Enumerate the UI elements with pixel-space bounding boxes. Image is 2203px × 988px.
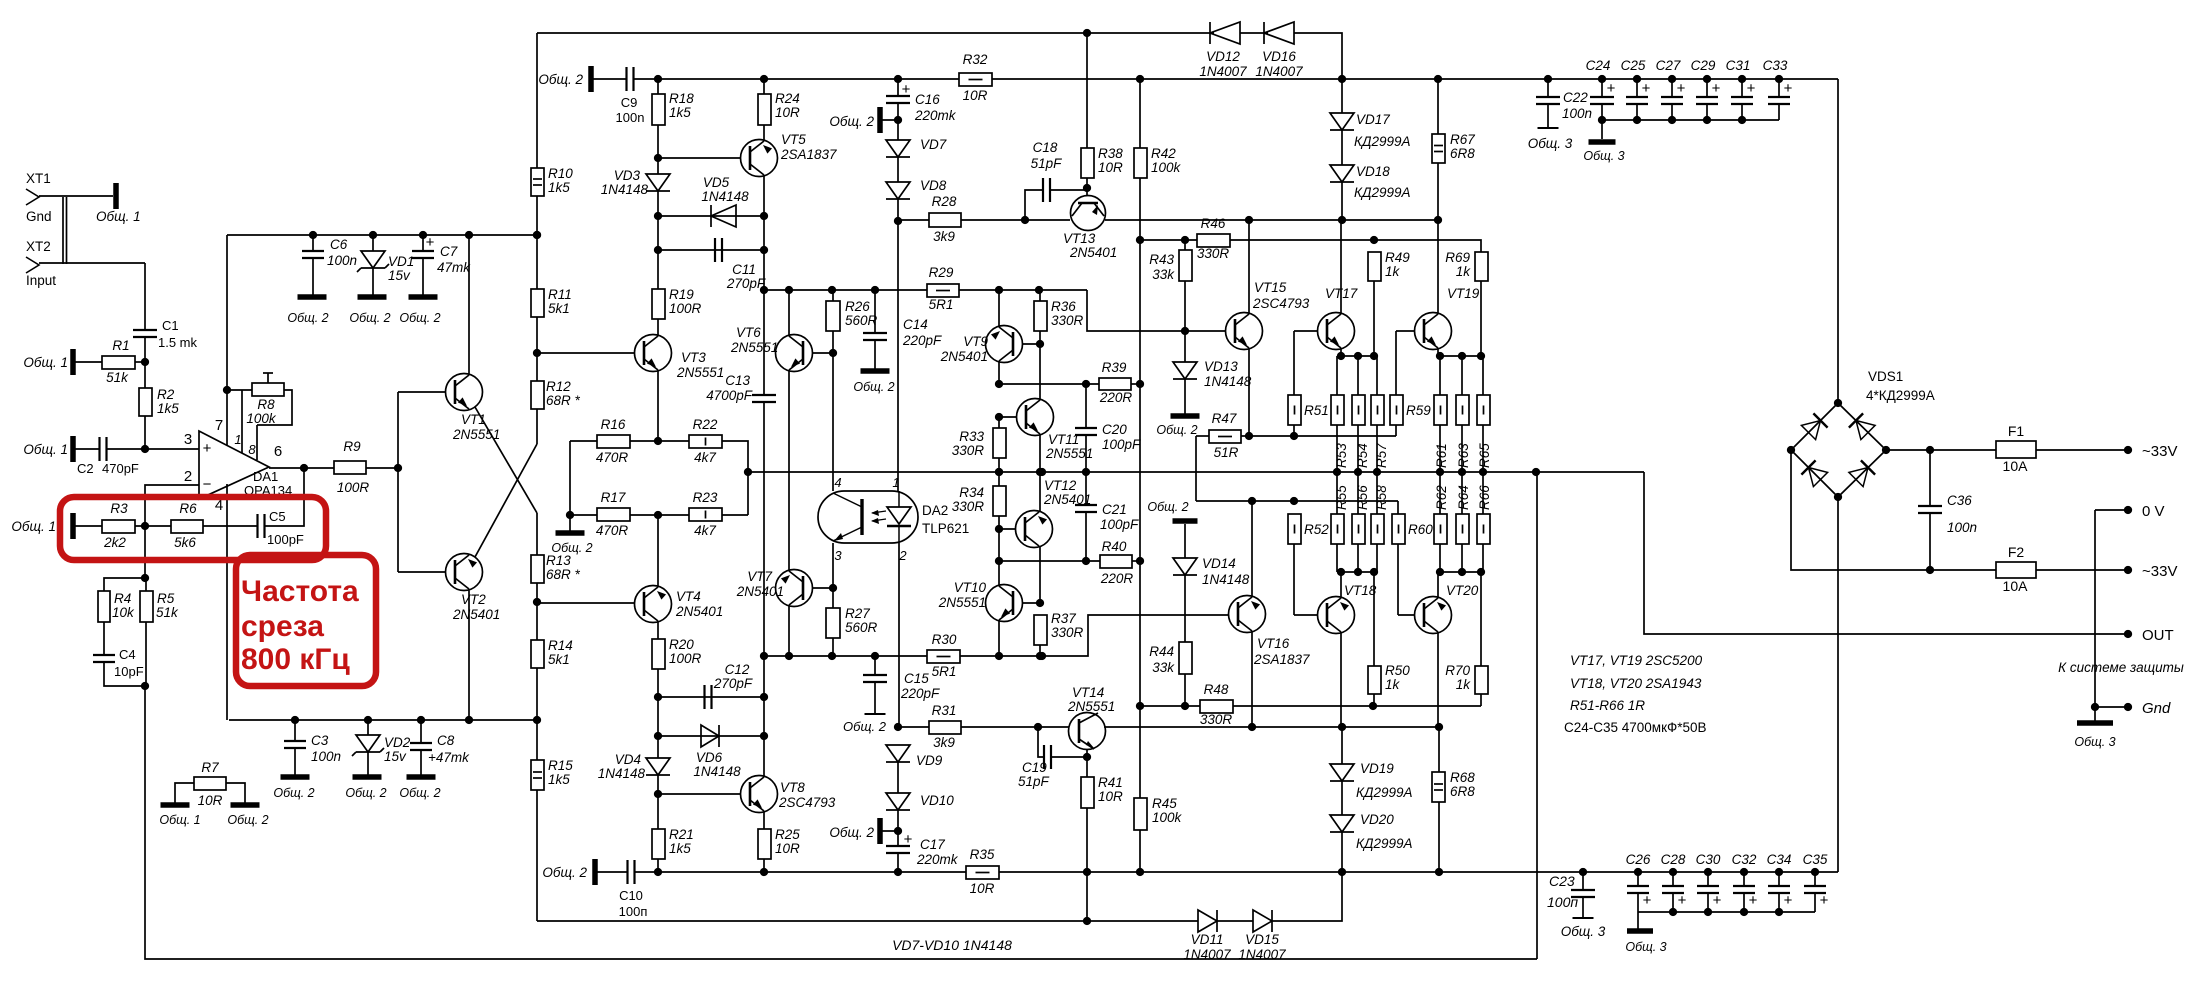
wire — [1438, 355, 1481, 357]
svg-text:Общ. 3: Общ. 3 — [1625, 940, 1666, 954]
svg-text:VD7: VD7 — [920, 137, 947, 152]
svg-text:Gnd: Gnd — [26, 209, 52, 224]
wire — [897, 157, 899, 182]
wire — [1480, 694, 1482, 706]
wire — [175, 783, 194, 803]
svg-text:Общ. 2: Общ. 2 — [829, 825, 874, 840]
wire — [898, 543, 900, 727]
svg-text:C22: C22 — [1563, 90, 1588, 105]
capacitor C18 — [1031, 140, 1063, 202]
junction — [654, 154, 662, 162]
junction — [1136, 75, 1144, 83]
junction — [141, 445, 149, 453]
svg-text:VD16: VD16 — [1262, 49, 1296, 64]
svg-text:TLP621: TLP621 — [922, 521, 969, 536]
svg-text:Общ. 2: Общ. 2 — [843, 719, 887, 734]
wire — [1140, 705, 1200, 707]
wire — [897, 810, 899, 846]
wire — [1357, 472, 1359, 514]
svg-text:220R: 220R — [1099, 390, 1133, 405]
svg-text:100R: 100R — [669, 301, 702, 316]
resistor R40 — [1100, 539, 1134, 586]
wire — [898, 219, 929, 221]
capacitor C21 plates — [1075, 502, 1139, 532]
svg-text:R42: R42 — [1151, 146, 1176, 161]
svg-text:R15: R15 — [548, 758, 573, 773]
junction — [894, 868, 902, 876]
svg-text:51k: 51k — [106, 370, 129, 385]
diode VD14 — [1173, 556, 1250, 587]
junction — [1035, 286, 1043, 294]
capacitor C30 plates — [1696, 852, 1721, 893]
resistor R12 — [531, 379, 581, 409]
wire — [135, 361, 145, 363]
terminal ~33V — [2124, 446, 2132, 454]
wire C7 bottom — [422, 258, 424, 295]
ground Общ.1 (R7) — [159, 805, 200, 827]
wire C24 top — [1601, 79, 1603, 97]
zener VD1 — [357, 251, 414, 283]
capacitor C17 — [886, 831, 959, 872]
svg-text:VT11: VT11 — [1048, 432, 1079, 447]
wire — [657, 775, 659, 829]
wire — [1376, 544, 1378, 572]
junction — [1337, 352, 1345, 360]
ground Общ.2 (C10) — [542, 859, 595, 885]
svg-text:VD1: VD1 — [388, 254, 414, 269]
capacitor C10 — [619, 860, 648, 919]
junction — [1083, 868, 1091, 876]
svg-text:VD14: VD14 — [1202, 556, 1236, 571]
resistor R7 — [194, 760, 226, 808]
capacitor C30 — [1696, 852, 1722, 912]
wire — [62, 197, 64, 264]
capacitor C14 — [863, 290, 942, 369]
svg-text:47mk: 47mk — [437, 260, 471, 275]
wire — [1395, 331, 1397, 395]
resistor R8 — [246, 383, 284, 426]
svg-text:C6: C6 — [330, 237, 348, 252]
wire — [397, 392, 399, 572]
wire C22 top — [1547, 79, 1549, 97]
svg-text:C7: C7 — [440, 244, 458, 259]
junction — [1532, 468, 1540, 476]
wire — [2036, 569, 2128, 571]
wire — [1398, 614, 1415, 616]
wire — [1791, 450, 1996, 570]
resistor R46 — [1197, 216, 1230, 261]
op-amp DA1 OPA134 — [184, 417, 292, 514]
junction — [369, 231, 377, 239]
wire — [75, 525, 102, 527]
capacitor C1 — [133, 318, 198, 350]
svg-text:10R: 10R — [970, 881, 995, 896]
wire — [263, 372, 273, 374]
wire — [1376, 356, 1378, 395]
svg-text:2SC4793: 2SC4793 — [1252, 296, 1310, 311]
wire — [1376, 472, 1378, 514]
wire — [1022, 343, 1040, 345]
svg-text:VD20: VD20 — [1360, 812, 1394, 827]
wire — [1086, 178, 1088, 196]
wire — [1293, 544, 1295, 615]
wire — [658, 793, 741, 795]
junction — [1477, 352, 1485, 360]
wire — [897, 762, 899, 793]
capacitor C7 plates — [412, 234, 471, 275]
svg-text:330R: 330R — [1197, 246, 1230, 261]
wire — [1184, 524, 1186, 558]
svg-text:4700pF: 4700pF — [706, 388, 753, 403]
wire — [658, 215, 764, 217]
junction — [894, 116, 902, 124]
svg-text:VDS1: VDS1 — [1868, 369, 1903, 384]
wire C14 bottom — [874, 340, 876, 369]
wire — [1233, 705, 1481, 707]
svg-text:+: + — [203, 440, 212, 457]
svg-text:VD3: VD3 — [614, 168, 641, 183]
wire C23 top — [1582, 872, 1584, 890]
junction — [465, 716, 473, 724]
junction — [1136, 702, 1144, 710]
svg-text:2N5551: 2N5551 — [938, 595, 986, 610]
svg-text:Общ. 2: Общ. 2 — [853, 380, 894, 394]
resistor R37 — [1034, 611, 1084, 645]
wire — [1644, 472, 2128, 634]
svg-text:+: + — [1749, 892, 1758, 909]
svg-text:R36: R36 — [1051, 299, 1076, 314]
svg-text:XT1: XT1 — [26, 171, 51, 186]
junction — [1338, 216, 1346, 224]
wire — [1341, 79, 1343, 113]
red box around R3 R6 C5 — [60, 497, 326, 560]
zener VD2 — [352, 735, 411, 764]
svg-text:2N5551: 2N5551 — [1067, 699, 1115, 714]
wire — [226, 235, 228, 446]
resistor R33 — [952, 428, 1006, 458]
resistor R52 — [1288, 514, 1329, 544]
wire — [1397, 544, 1399, 615]
svg-text:R52: R52 — [1304, 522, 1329, 537]
wire — [1439, 425, 1441, 472]
wire C32 bottom — [1743, 893, 1745, 912]
svg-text:R20: R20 — [669, 637, 694, 652]
svg-text:VD6: VD6 — [696, 750, 723, 765]
wire — [992, 78, 1838, 80]
wire — [1373, 572, 1375, 666]
junction — [1354, 568, 1362, 576]
svg-text:10R: 10R — [775, 841, 800, 856]
svg-text:VD5: VD5 — [703, 175, 730, 190]
capacitor C27 plates — [1656, 58, 1686, 104]
svg-text:C5: C5 — [269, 509, 286, 524]
wire — [570, 514, 597, 516]
wire — [1139, 79, 1141, 148]
svg-text:10R: 10R — [1098, 789, 1123, 804]
junction — [1036, 652, 1044, 660]
capacitor C16 — [886, 79, 957, 140]
transistor VT11 — [1017, 399, 1094, 462]
resistor R19 — [652, 287, 702, 319]
junction — [1669, 868, 1677, 876]
svg-text:КД2999А: КД2999А — [1356, 785, 1413, 800]
diode VD20 — [1330, 812, 1413, 851]
svg-text:100pF: 100pF — [1100, 517, 1139, 532]
junction — [1668, 116, 1676, 124]
svg-text:100pF: 100pF — [267, 532, 304, 547]
svg-text:R14: R14 — [548, 638, 573, 653]
svg-text:560R: 560R — [845, 313, 878, 328]
wire — [269, 467, 334, 469]
capacitor C6 — [302, 235, 357, 295]
diode VD9 — [886, 745, 943, 768]
svg-text:330R: 330R — [952, 443, 985, 458]
svg-text:220mk: 220mk — [914, 108, 957, 123]
resistor R60 — [1392, 514, 1433, 544]
svg-text:VT17, VT19 2SC5200: VT17, VT19 2SC5200 — [1570, 653, 1703, 668]
svg-text:51pF: 51pF — [1031, 156, 1063, 171]
wire — [634, 78, 658, 80]
svg-text:68R *: 68R * — [546, 393, 581, 408]
fuse F2 — [1996, 544, 2036, 594]
svg-text:2N5401: 2N5401 — [675, 604, 723, 619]
resistor R47 — [1209, 411, 1241, 460]
wire — [144, 362, 146, 388]
wire — [1336, 425, 1338, 472]
resistor R26 — [826, 299, 878, 331]
wire VD1 bottom — [372, 268, 374, 295]
wire — [1340, 572, 1342, 597]
resistor R56 — [1352, 514, 1365, 544]
capacitor C25 plates — [1621, 58, 1651, 104]
wire — [1376, 425, 1378, 472]
svg-text:Общ. 2: Общ. 2 — [538, 72, 583, 87]
resistor R24 — [758, 91, 800, 125]
svg-text:R44: R44 — [1149, 644, 1174, 659]
wire C36 top — [1929, 450, 1931, 506]
diode VD16 — [1255, 22, 1303, 79]
wire — [1336, 472, 1338, 514]
wire — [1337, 355, 1377, 357]
junction — [1740, 908, 1748, 916]
svg-text:C21: C21 — [1102, 502, 1127, 517]
resistor R54 — [1352, 395, 1365, 425]
resistor R21 — [652, 827, 694, 859]
junction — [995, 380, 1003, 388]
wire — [366, 467, 398, 469]
svg-text:1N4007: 1N4007 — [1183, 947, 1231, 962]
junction — [1668, 75, 1676, 83]
wire — [145, 578, 147, 591]
svg-text:R38: R38 — [1098, 146, 1123, 161]
svg-text:R25: R25 — [775, 827, 800, 842]
svg-text:~33V: ~33V — [2142, 443, 2177, 460]
junction — [1036, 468, 1044, 476]
ground Общ.3 (Gnd) — [2074, 723, 2115, 749]
junction — [566, 511, 574, 519]
diode VD8 — [886, 178, 947, 199]
svg-text:100п: 100п — [1547, 894, 1578, 910]
terminal 0 V — [2124, 506, 2132, 514]
capacitor C28 plates — [1661, 852, 1686, 893]
resistor R6 — [171, 501, 203, 550]
wire C3 bottom — [294, 748, 296, 775]
svg-text:2: 2 — [184, 468, 192, 485]
svg-text:220pF: 220pF — [900, 686, 940, 701]
capacitor C5 — [258, 509, 304, 547]
wire — [998, 458, 1000, 472]
svg-text:7: 7 — [215, 417, 223, 434]
resistor R28 — [929, 194, 961, 244]
svg-text:2SA1837: 2SA1837 — [1253, 652, 1310, 667]
svg-text:5R1: 5R1 — [932, 664, 957, 679]
transistor VT20 — [1415, 583, 1479, 634]
wire — [959, 289, 1087, 291]
wire — [39, 262, 145, 264]
junction — [654, 868, 662, 876]
junction — [760, 286, 768, 294]
capacitor C35 plates — [1803, 852, 1828, 893]
wire — [1373, 694, 1375, 706]
svg-text:1: 1 — [892, 475, 899, 490]
svg-text:R29: R29 — [929, 265, 954, 280]
wire — [748, 471, 1644, 473]
svg-text:Общ. 2: Общ. 2 — [829, 114, 874, 129]
junction — [654, 732, 662, 740]
wire — [1184, 674, 1186, 706]
svg-text:R65: R65 — [1477, 443, 1492, 468]
resistor R20 — [652, 637, 702, 669]
resistor R61 — [1434, 395, 1447, 425]
transistor VT3 — [635, 335, 725, 381]
svg-text:C36: C36 — [1947, 493, 1972, 508]
svg-text:1N4007: 1N4007 — [1199, 64, 1247, 79]
ground Общ.3 (C23) — [1561, 918, 1606, 939]
wire — [1025, 190, 1043, 220]
wire — [1341, 832, 1343, 872]
junction — [1082, 557, 1090, 565]
wire — [1195, 436, 1197, 501]
red note box — [236, 555, 376, 686]
svg-text:R6: R6 — [179, 501, 197, 516]
wire — [145, 448, 199, 450]
ground Общ.2 (C16) — [829, 107, 880, 133]
wire — [1341, 727, 1343, 764]
diode VD10 — [886, 793, 954, 810]
resistor R67 — [1432, 132, 1475, 163]
junction — [995, 468, 1003, 476]
wire — [1482, 472, 1484, 514]
diode VD11 — [1183, 910, 1231, 962]
ground Общ.2 (C14) — [853, 371, 894, 394]
wire — [998, 561, 1000, 585]
junction — [995, 525, 1003, 533]
resistor R30 — [927, 632, 960, 679]
diode VD3 — [601, 168, 670, 197]
wire — [1337, 571, 1377, 573]
resistor R29 — [927, 265, 959, 312]
wire — [657, 79, 659, 94]
wire — [1131, 383, 1140, 385]
svg-text:VT8: VT8 — [780, 780, 805, 795]
capacitor C23 plates — [1547, 873, 1595, 910]
svg-text:+: + — [904, 831, 913, 848]
svg-text:C27: C27 — [1656, 58, 1681, 73]
junction — [894, 723, 902, 731]
capacitor C8 plates — [410, 733, 470, 765]
wire — [104, 578, 145, 591]
svg-text:Частота: Частота — [241, 575, 359, 608]
wire — [1482, 356, 1484, 395]
resistor R31 — [929, 703, 961, 750]
wire — [832, 290, 834, 301]
wire — [1248, 220, 1250, 313]
wire — [536, 317, 538, 381]
bridge rectifier VDS1 — [1791, 369, 1935, 497]
ground Общ.2 (C8) — [399, 777, 440, 800]
ground Общ.2 (VD2) — [345, 777, 386, 800]
fuse F1 — [1996, 423, 2036, 474]
wire — [537, 32, 1214, 34]
wire — [1184, 575, 1186, 642]
junction — [2091, 703, 2099, 711]
svg-text:4k7: 4k7 — [694, 450, 716, 465]
svg-text:0 V: 0 V — [2142, 503, 2165, 520]
wire — [998, 472, 1000, 486]
wire — [135, 525, 171, 527]
resistor R3 — [102, 501, 135, 550]
junction — [1338, 868, 1346, 876]
wire — [226, 783, 245, 803]
resistor R18 — [652, 91, 694, 125]
wire — [1437, 79, 1439, 134]
svg-text:C11: C11 — [732, 262, 756, 277]
junction — [1458, 468, 1466, 476]
svg-text:3k9: 3k9 — [933, 229, 955, 244]
wire — [658, 696, 764, 698]
wire C22 bottom — [1547, 104, 1549, 128]
svg-text:51pF: 51pF — [1018, 774, 1050, 789]
resistor R5 — [140, 591, 179, 622]
svg-text:10k: 10k — [112, 605, 135, 620]
junction — [1598, 75, 1606, 83]
svg-text:100n: 100n — [327, 253, 357, 268]
svg-text:Общ. 3: Общ. 3 — [2074, 735, 2115, 749]
svg-text:1N4148: 1N4148 — [601, 182, 649, 197]
junction — [1703, 116, 1711, 124]
wire — [229, 719, 537, 721]
capacitor C20 — [1075, 384, 1141, 472]
junction — [1479, 468, 1487, 476]
ground Общ.3 (bank) — [1625, 931, 1666, 954]
junction — [394, 464, 402, 472]
svg-text:+: + — [426, 234, 435, 251]
svg-text:VT7: VT7 — [747, 569, 772, 584]
wire VD2 top — [367, 720, 369, 735]
wire — [1336, 544, 1338, 572]
svg-text:Общ. 1: Общ. 1 — [23, 355, 68, 370]
svg-text:330R: 330R — [1051, 313, 1084, 328]
svg-text:Общ. 3: Общ. 3 — [1561, 924, 1606, 939]
capacitor C22 plates — [1536, 90, 1592, 121]
svg-text:5k1: 5k1 — [548, 301, 570, 316]
svg-text:+: + — [1677, 80, 1686, 97]
svg-text:XT2: XT2 — [26, 239, 51, 254]
ground Общ.2 (C9) — [538, 66, 591, 92]
svg-text:+: + — [1712, 80, 1721, 97]
resistor R63 — [1456, 395, 1469, 425]
wire — [39, 195, 113, 197]
